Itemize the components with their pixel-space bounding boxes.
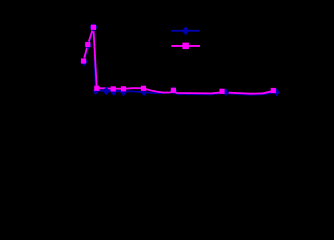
- blue diamonds (over magenta line): [80, 23, 279, 96]
- magenta squares (topmost): [81, 25, 276, 94]
- blue series line: [84, 28, 276, 95]
- magenta series line: [84, 27, 274, 93]
- legend magenta entry: [171, 45, 200, 47]
- legend blue entry: [171, 30, 199, 32]
